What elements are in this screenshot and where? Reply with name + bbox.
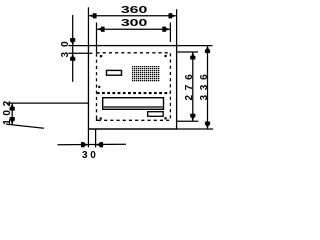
dim line 360 <box>89 15 176 17</box>
arrow 300 left <box>97 27 105 32</box>
dim line 102 vertical <box>11 103 13 125</box>
button rectangle <box>107 70 122 75</box>
ext line recess-top right <box>177 51 198 53</box>
stray dot near divider left <box>98 86 100 88</box>
baseline bottom <box>88 128 213 130</box>
ext line 300 left <box>96 23 98 53</box>
ext line B (102 bottom, slightly sloped as in original) <box>6 124 44 128</box>
stray dot near recess bottom-right <box>164 117 166 119</box>
small card rectangle <box>148 112 164 117</box>
speaker grille dot grid <box>132 66 159 81</box>
arrow 336 top (up) <box>205 46 210 54</box>
svg-text:276: 276 <box>184 69 195 100</box>
outer flush-mount box <box>88 46 176 129</box>
svg-text:336: 336 <box>199 69 210 100</box>
dim line 336 vertical <box>207 46 209 129</box>
dim line 30 left vertical <box>72 15 74 82</box>
ext line 360 left <box>87 7 89 45</box>
arrow 360 right <box>169 13 177 18</box>
heavy dashed divider line <box>97 92 170 94</box>
stray dot near recess bottom-left <box>100 117 102 119</box>
svg-text:300: 300 <box>121 18 148 29</box>
arrow 360 left <box>89 13 97 18</box>
slot inner line <box>104 106 163 108</box>
svg-text:30: 30 <box>60 36 71 57</box>
ext line recess-bottom right <box>177 120 199 122</box>
arrow 102 bottom (down) <box>10 117 15 125</box>
dim line 30 bottom <box>58 143 127 146</box>
ext line below box right <box>95 129 97 147</box>
arrow 276 top (up) <box>190 52 195 60</box>
ext line box-top left <box>68 45 88 47</box>
svg-text:360: 360 <box>121 5 148 16</box>
arrow 102 top (up) <box>10 103 15 111</box>
stray dot near recess top-right <box>165 55 167 57</box>
ext line below box left <box>87 129 89 147</box>
ext line 360 right <box>176 9 178 45</box>
arrow 30-bottom left (points right) <box>81 142 89 147</box>
dim line 276 vertical <box>192 52 194 121</box>
slot bezel rectangle <box>103 98 164 110</box>
svg-text:102: 102 <box>2 97 13 125</box>
stray dot near recess top-left <box>100 55 102 57</box>
arrow 30-left upper (down) <box>70 38 75 46</box>
corner dash bottom-left of recess <box>96 118 97 121</box>
svg-text:30: 30 <box>82 150 98 161</box>
dashed recess rectangle <box>97 53 171 121</box>
arrow 30-bottom right (points left) <box>96 142 104 147</box>
arrow 300 right <box>162 27 170 32</box>
ext line 300 right <box>169 23 171 43</box>
arrow 276 bottom (down) <box>190 114 195 122</box>
ext line recess-top left <box>68 52 92 54</box>
ext line box-top right <box>177 45 213 47</box>
ext line A (102 top) <box>7 102 88 104</box>
arrow 336 bottom (down) <box>205 122 210 130</box>
dim line 300 <box>97 28 170 30</box>
arrow 30-left lower (up) <box>70 53 75 61</box>
